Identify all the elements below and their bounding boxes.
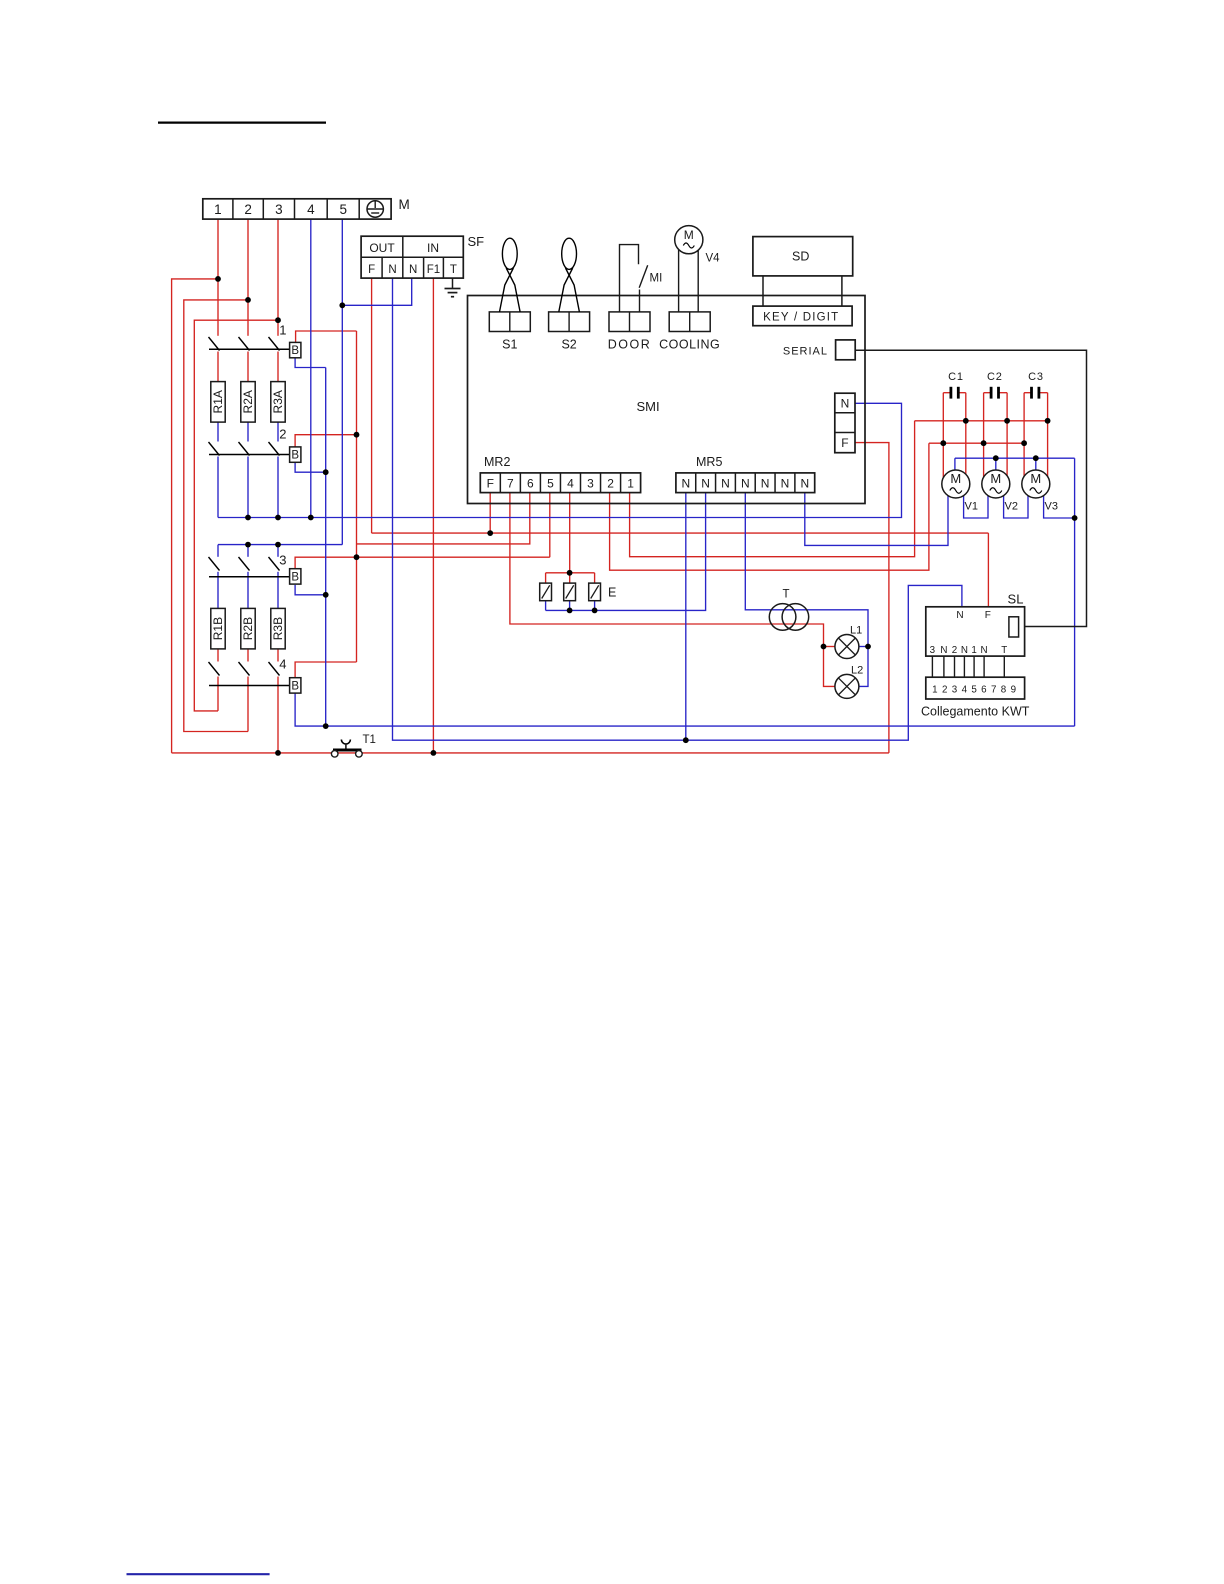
svg-text:T: T <box>782 589 789 601</box>
svg-text:N: N <box>761 477 770 491</box>
svg-text:N: N <box>981 645 988 656</box>
svg-text:SMI: SMI <box>636 399 659 414</box>
svg-text:6: 6 <box>981 685 987 696</box>
svg-text:F: F <box>985 610 991 621</box>
svg-text:T: T <box>1001 645 1007 656</box>
svg-text:1: 1 <box>971 645 976 656</box>
svg-text:F1: F1 <box>427 264 440 276</box>
svg-text:8: 8 <box>1001 685 1007 696</box>
svg-text:F: F <box>368 264 375 276</box>
svg-text:N: N <box>800 477 809 491</box>
svg-text:F: F <box>487 477 494 491</box>
svg-text:R2B: R2B <box>241 617 255 640</box>
svg-text:3: 3 <box>275 202 283 217</box>
svg-text:2: 2 <box>244 202 252 217</box>
svg-text:MR2: MR2 <box>484 455 510 469</box>
svg-text:IN: IN <box>427 241 439 255</box>
svg-text:DOOR: DOOR <box>608 337 652 351</box>
svg-text:3: 3 <box>930 645 936 656</box>
svg-text:4: 4 <box>307 202 315 217</box>
svg-text:SERIAL: SERIAL <box>783 345 828 357</box>
svg-text:V4: V4 <box>706 253 721 265</box>
svg-text:SL: SL <box>1008 592 1024 607</box>
svg-text:M: M <box>399 197 410 212</box>
svg-text:N: N <box>741 477 750 491</box>
svg-text:N: N <box>956 610 963 621</box>
svg-text:N: N <box>681 477 690 491</box>
svg-text:N: N <box>961 645 968 656</box>
svg-text:E: E <box>608 586 616 600</box>
svg-text:N: N <box>388 264 396 276</box>
svg-text:N: N <box>781 477 790 491</box>
svg-text:M: M <box>1030 471 1041 486</box>
svg-text:2: 2 <box>942 685 947 696</box>
svg-text:N: N <box>841 397 850 411</box>
svg-text:1: 1 <box>214 202 222 217</box>
svg-text:3: 3 <box>587 477 594 491</box>
svg-text:7: 7 <box>991 685 996 696</box>
svg-text:L1: L1 <box>850 625 862 637</box>
svg-text:SD: SD <box>792 250 809 264</box>
svg-text:KEY / DIGIT: KEY / DIGIT <box>763 311 839 323</box>
svg-text:2: 2 <box>952 645 957 656</box>
svg-text:T1: T1 <box>363 734 376 746</box>
svg-text:B: B <box>291 681 299 693</box>
svg-text:N: N <box>940 645 947 656</box>
svg-text:MR5: MR5 <box>696 455 722 469</box>
svg-text:F: F <box>841 436 848 450</box>
svg-text:5: 5 <box>339 202 347 217</box>
svg-text:M: M <box>990 471 1001 486</box>
svg-text:C1: C1 <box>948 371 964 383</box>
svg-text:N: N <box>409 264 417 276</box>
svg-text:3: 3 <box>279 553 286 568</box>
svg-text:4: 4 <box>279 657 286 672</box>
svg-text:V3: V3 <box>1045 501 1058 513</box>
svg-text:N: N <box>701 477 710 491</box>
svg-text:7: 7 <box>507 477 514 491</box>
svg-text:1: 1 <box>627 477 634 491</box>
svg-text:R1A: R1A <box>211 390 225 413</box>
svg-text:B: B <box>291 450 299 462</box>
svg-text:B: B <box>291 345 299 357</box>
svg-text:R2A: R2A <box>241 390 255 413</box>
svg-text:MI: MI <box>650 273 663 285</box>
svg-text:SF: SF <box>468 234 485 249</box>
svg-text:C3: C3 <box>1028 371 1044 383</box>
svg-text:R1B: R1B <box>211 617 225 640</box>
svg-text:M: M <box>950 471 961 486</box>
svg-text:5: 5 <box>547 477 554 491</box>
svg-text:3: 3 <box>952 685 958 696</box>
svg-text:M: M <box>684 228 694 242</box>
svg-text:V2: V2 <box>1005 501 1018 513</box>
svg-text:2: 2 <box>279 427 286 442</box>
svg-text:S2: S2 <box>561 337 576 351</box>
svg-text:Collegamento KWT: Collegamento KWT <box>921 705 1030 719</box>
svg-text:4: 4 <box>962 685 968 696</box>
svg-text:1: 1 <box>932 685 937 696</box>
svg-text:OUT: OUT <box>369 241 395 255</box>
svg-text:4: 4 <box>567 477 574 491</box>
svg-text:L2: L2 <box>851 665 863 677</box>
svg-text:V1: V1 <box>965 501 978 513</box>
svg-text:B: B <box>291 572 299 584</box>
svg-text:2: 2 <box>607 477 614 491</box>
svg-text:S1: S1 <box>502 337 517 351</box>
svg-text:N: N <box>721 477 730 491</box>
svg-text:6: 6 <box>527 477 534 491</box>
svg-text:R3B: R3B <box>271 617 285 640</box>
svg-text:9: 9 <box>1011 685 1016 696</box>
svg-text:C2: C2 <box>987 371 1003 383</box>
svg-text:T: T <box>450 264 457 276</box>
svg-text:1: 1 <box>279 323 286 338</box>
svg-text:R3A: R3A <box>271 390 285 413</box>
svg-text:5: 5 <box>971 685 977 696</box>
svg-text:COOLING: COOLING <box>659 337 720 351</box>
